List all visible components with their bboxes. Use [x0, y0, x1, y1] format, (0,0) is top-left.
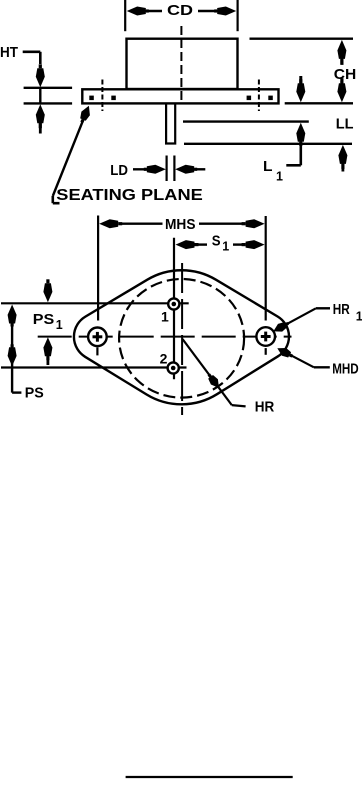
svg-text:LD: LD [110, 162, 128, 179]
svg-text:2: 2 [160, 351, 168, 367]
svg-text:HT: HT [0, 44, 18, 61]
svg-text:1: 1 [276, 170, 283, 184]
svg-text:L: L [263, 158, 273, 175]
svg-text:LL: LL [336, 116, 354, 133]
svg-text:PS: PS [33, 311, 55, 328]
svg-text:1: 1 [161, 308, 169, 324]
svg-text:PS: PS [25, 385, 44, 402]
svg-text:1: 1 [356, 310, 362, 324]
svg-text:MHS: MHS [165, 216, 196, 233]
svg-text:CD: CD [167, 2, 193, 19]
svg-text:HR: HR [255, 399, 275, 416]
svg-text:SEATING PLANE: SEATING PLANE [56, 187, 203, 204]
svg-text:S: S [212, 233, 221, 250]
svg-text:1: 1 [222, 240, 229, 254]
svg-text:HR: HR [333, 301, 350, 318]
svg-text:CH: CH [334, 66, 357, 83]
svg-text:1: 1 [56, 318, 63, 332]
svg-text:MHD: MHD [332, 361, 359, 378]
